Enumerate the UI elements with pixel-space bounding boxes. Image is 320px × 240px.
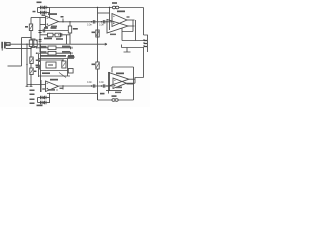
capacitor on row1 left: [43, 29, 45, 33]
resistor R11 vertical: [62, 61, 66, 68]
capacitor C3: [41, 11, 43, 14]
op-amp A1: [46, 16, 59, 27]
label A4 above: [116, 73, 124, 75]
capacitor C8: [103, 20, 105, 24]
wire bottom output up to jack: [135, 78, 144, 84]
label below row: [42, 72, 50, 74]
wire row y76.5: [39, 75, 71, 77]
op-amp A2: [112, 14, 127, 27]
wire interstage row2: [40, 34, 70, 36]
stub down to bus: [66, 35, 68, 44]
label R6: [92, 32, 96, 34]
node dots top line: [97, 7, 98, 8]
zobel row A end mark: [71, 46, 73, 49]
speck below wire: [115, 92, 121, 94]
capacitor C4: [45, 11, 47, 14]
input jack J1: [1, 42, 5, 51]
node dot: [49, 93, 50, 94]
diagonal wire: [59, 73, 66, 78]
polarity mark row4: [43, 102, 45, 104]
label row y37: [44, 38, 52, 40]
wire vertical x38.5 left edge: [38, 54, 40, 77]
wire left column vertical x31: [30, 18, 33, 87]
wire top feedback branch row2: [38, 12, 51, 14]
wire right vertical from jack down: [143, 48, 145, 78]
capacitor C9: [41, 96, 43, 99]
op-amp A3: [46, 81, 59, 92]
label C1 value: [37, 2, 42, 4]
label R11 value: [68, 56, 75, 58]
label R7: [92, 64, 96, 66]
speck left of A1: [42, 15, 46, 17]
wire vertical x40: [39, 18, 41, 53]
node junction dot A1 out: [62, 21, 63, 22]
polarity mark row2: [43, 12, 45, 14]
ferrite bead L4: [115, 99, 118, 102]
wire A4 input stub: [108, 86, 110, 94]
capacitor C5 on x40: [39, 31, 42, 33]
text row R labels: [40, 55, 66, 57]
label A2: [117, 11, 125, 13]
speck left of A3 input: [42, 88, 45, 89]
zobel row B label: [41, 51, 47, 53]
pin marks A4: [114, 80, 116, 86]
wire top feedback branch row1: [38, 7, 51, 9]
output jack upper corner: [144, 35, 148, 52]
resistor R2: [29, 40, 32, 47]
wire vertical x67.5: [67, 59, 69, 77]
zobel row A label: [41, 46, 47, 48]
wire vertical x27: [26, 44, 29, 86]
label inside K1: [48, 64, 53, 65]
trimmer arrow R11: [63, 63, 66, 67]
wire feedback box bottom channel: [112, 67, 134, 100]
pin marks A2: [113, 16, 115, 24]
wire A1 plus input: [40, 24, 46, 26]
label L1: [112, 2, 117, 4]
node dots on signal line: [91, 21, 92, 22]
capacitor on row y35: [60, 33, 62, 37]
label F: [61, 16, 64, 18]
polarity mark row3: [43, 97, 45, 99]
box K1: [46, 62, 56, 68]
wire bridge above left column: [31, 17, 40, 19]
wire row y70.5: [41, 70, 68, 72]
speck below A3 out: [60, 88, 63, 89]
label under cap: [56, 38, 63, 40]
wire A1 minus input: [40, 17, 46, 19]
left column resistor R9: [30, 68, 33, 75]
wire step to A2 inverting input: [98, 12, 110, 14]
speck near A2 apex: [127, 16, 130, 17]
tick below A3 out: [62, 86, 64, 90]
wire A3 plus input bus: [27, 84, 46, 86]
wire A3 output: [59, 85, 113, 87]
wire A4 out: [127, 82, 136, 84]
wire interstage row1: [40, 30, 70, 32]
wire big tri out: [128, 25, 135, 27]
capacitor C2: [45, 6, 47, 9]
ferrite bead L3: [112, 99, 115, 102]
wire A2 out: [127, 19, 135, 21]
label R1: [25, 26, 28, 28]
wire left vertical of RC network: [37, 8, 39, 13]
resistor R4 horizontal: [48, 33, 54, 37]
left margin labels: [36, 60, 38, 62]
node dot network: [46, 7, 47, 8]
node dot: [30, 37, 31, 38]
ferrite bead L1 on top line: [112, 6, 115, 9]
wire vertical x97 middle: [97, 22, 99, 100]
wire left vertical x109 bottom: [109, 72, 111, 91]
svg-text:10n: 10n: [99, 23, 104, 27]
wire input lower line: [6, 47, 31, 49]
label row2: [33, 11, 36, 13]
wire right vertical up to A3: [49, 94, 51, 103]
wire long bottom feedback line: [47, 94, 134, 101]
wire row2: [38, 102, 51, 104]
wire right vertical of RC network to A1 inverting input: [49, 8, 51, 18]
wire h y84: [127, 83, 134, 85]
wire vertical x41 at A3: [40, 80, 42, 92]
svg-text:10n: 10n: [87, 80, 92, 84]
op-amp A4: [113, 78, 127, 89]
label below A3: [48, 89, 55, 91]
zobel row A value: [62, 46, 70, 48]
svg-text:10n: 10n: [87, 23, 92, 27]
power amp big triangle bottom: [109, 73, 130, 87]
capacitor C10: [45, 96, 47, 99]
jack contact arrows: [144, 41, 147, 47]
wire ground stub: [8, 65, 22, 67]
zobel row B wire: [37, 52, 71, 54]
power amp big triangle top: [107, 20, 128, 34]
wire row y58.5: [39, 58, 75, 60]
specks between rails: [39, 60, 41, 63]
node dot: [62, 59, 63, 60]
wire parallel pair top bridge: [31, 38, 36, 40]
wire parallel pair bottom bridge: [31, 47, 36, 49]
capacitor C7: [93, 20, 95, 24]
wire vertical x40.5: [40, 45, 42, 93]
label A3: [50, 79, 58, 81]
node test point: [62, 19, 64, 23]
wire vertical x21.5: [21, 38, 23, 67]
node dot mid bus left: [26, 44, 27, 45]
label near step: [100, 93, 105, 95]
node dot row B: [36, 53, 37, 54]
label L3: [112, 95, 117, 97]
wire A1 output line to A2: [59, 21, 113, 23]
capacitor C6 electrolytic on x40: [39, 40, 42, 42]
wire jack ring corner: [121, 45, 123, 48]
capacitor C12: [45, 101, 47, 104]
resistor R1: [29, 24, 32, 31]
pin marks A3: [47, 83, 49, 89]
wire row y63: [41, 60, 64, 61]
resistor R6 on x97: [96, 30, 99, 37]
wire jack sleeve drop: [124, 48, 131, 53]
capacitor C11: [41, 101, 43, 104]
resistor R5: [68, 26, 71, 33]
wire jack tip line: [122, 40, 144, 42]
wire feedback tap vertical x97: [97, 8, 99, 23]
label below network: [37, 105, 43, 107]
label below A4: [116, 87, 122, 89]
polarity mark row1: [43, 7, 45, 9]
wire vertical x109 top: [109, 8, 111, 31]
wire jack ring line: [122, 47, 145, 49]
zobel row A resistor: [48, 46, 56, 50]
wire long top feedback line: [50, 7, 144, 9]
resistor R4b horizontal: [55, 33, 61, 37]
resistor R3 parallel: [34, 40, 37, 47]
wire right feedback vertical: [143, 8, 145, 36]
label 10k row: [44, 27, 48, 29]
left column resistor R8: [30, 57, 33, 64]
label below A1: [51, 26, 57, 28]
capacitor C1: [41, 6, 43, 9]
zobel row A wire: [37, 47, 71, 49]
label left col: [36, 65, 40, 67]
node dot lower: [30, 48, 31, 49]
bus end arrow: [105, 43, 107, 45]
box C15: [68, 69, 73, 74]
wire vertical x70: [69, 22, 71, 45]
wire mid bus: [6, 43, 107, 45]
pin marks A1 inputs: [47, 18, 49, 25]
node dot left col: [26, 64, 27, 65]
left labels column: [30, 90, 35, 92]
feedback U loop top: [122, 20, 133, 41]
capacitor C14: [103, 84, 105, 88]
wire left vertical: [37, 98, 39, 103]
zobel row B end mark: [71, 52, 73, 55]
node dot row y35: [58, 34, 59, 35]
label plus sign: [36, 40, 38, 41]
wire row1: [38, 97, 51, 99]
zobel row B value: [62, 51, 70, 53]
node dot A3 out: [62, 85, 63, 86]
wire top output down: [135, 20, 137, 41]
ferrite bead L2: [116, 6, 119, 9]
wire big tri bottom out: [129, 78, 135, 80]
resistor R7 on x97 lower: [96, 62, 99, 69]
component on input line: [6, 43, 10, 46]
label A1: [48, 13, 57, 15]
zobel row B resistor: [48, 51, 56, 55]
capacitor C13: [93, 84, 95, 88]
label left margin 3: [34, 71, 36, 73]
node dot x70 tap: [69, 21, 70, 22]
node dot: [30, 84, 31, 85]
node dots bottom signal: [91, 85, 92, 86]
node dot row A: [36, 47, 37, 48]
svg-text:10n: 10n: [99, 80, 104, 84]
label R5: [73, 28, 78, 30]
speck below big triangle top: [110, 34, 116, 36]
wire below triangles: [106, 90, 122, 92]
wire branch y37.5: [22, 37, 32, 39]
